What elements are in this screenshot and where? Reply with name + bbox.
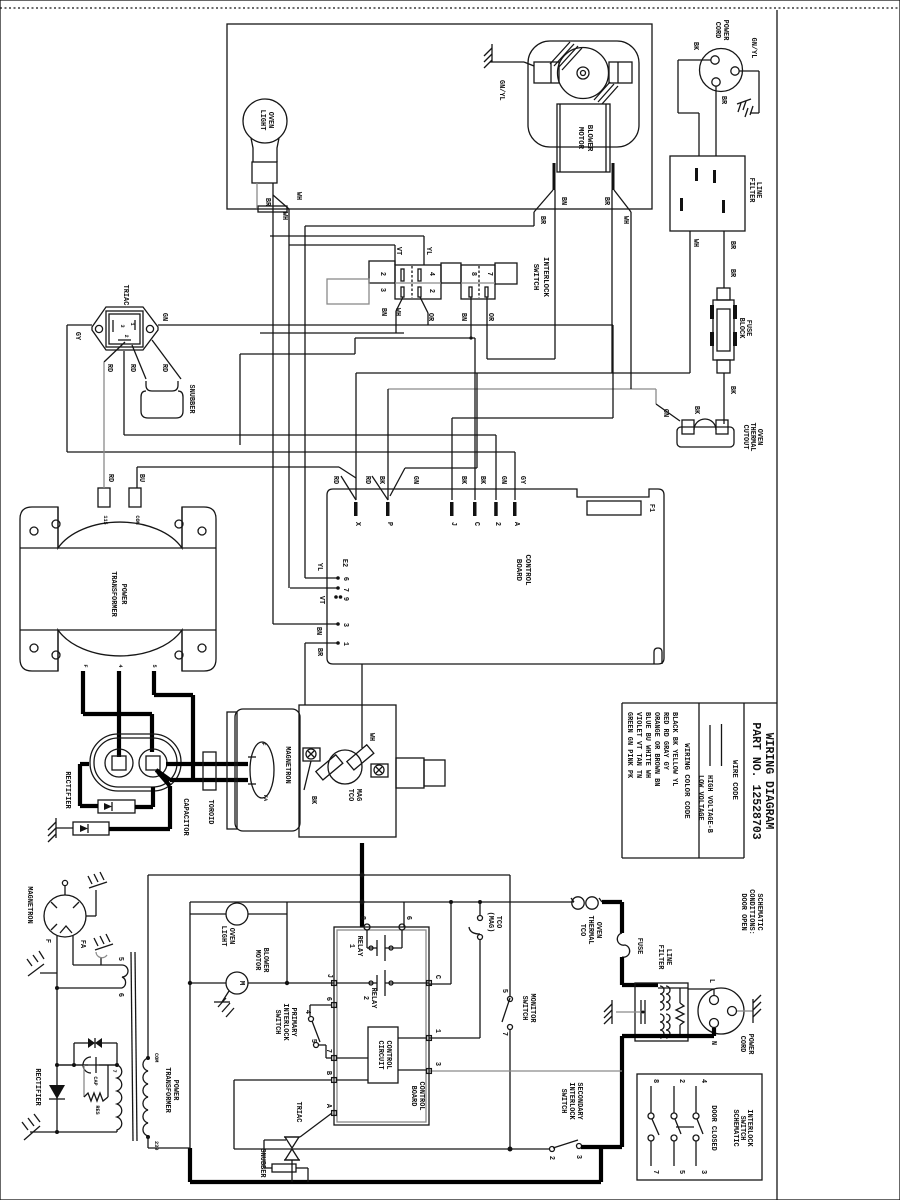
svg-text:GN/YL: GN/YL: [497, 80, 505, 101]
svg-text:RD: RD: [128, 364, 136, 372]
svg-text:RD: RD: [106, 474, 114, 482]
svg-text:5: 5: [116, 957, 124, 961]
svg-text:SNUBBER: SNUBBER: [187, 385, 195, 415]
svg-text:2: 2: [547, 1156, 555, 1160]
svg-text:CONDITIONS:: CONDITIONS:: [747, 889, 755, 935]
svg-text:BLUE BU WHITE WH: BLUE BU WHITE WH: [643, 712, 651, 778]
svg-text:3: 3: [378, 288, 386, 292]
svg-text:RED RD GRAY GY: RED RD GRAY GY: [661, 712, 669, 771]
svg-text:GN: GN: [160, 313, 168, 321]
svg-text:RELAY: RELAY: [355, 936, 363, 958]
svg-text:VT: VT: [317, 596, 325, 604]
svg-text:RES: RES: [94, 1105, 100, 1114]
svg-text:BN: BN: [379, 308, 387, 316]
svg-text:7: 7: [500, 1032, 508, 1036]
svg-text:7: 7: [111, 1069, 117, 1072]
svg-text:MOTOR: MOTOR: [253, 950, 261, 972]
svg-text:CONTROL: CONTROL: [417, 1082, 425, 1111]
svg-text:L: L: [707, 979, 715, 983]
svg-text:BK: BK: [478, 476, 486, 485]
svg-text:CAP: CAP: [92, 1076, 98, 1085]
svg-text:INTERLOCK: INTERLOCK: [281, 1003, 289, 1041]
svg-text:VIOLET VT TAN TN: VIOLET VT TAN TN: [634, 712, 642, 778]
svg-text:MAGNETRON: MAGNETRON: [283, 746, 291, 783]
svg-text:ORANGE OR BROWN BN: ORANGE OR BROWN BN: [652, 712, 660, 786]
svg-text:5: 5: [309, 1039, 317, 1043]
svg-text:POWER: POWER: [721, 20, 729, 42]
svg-text:LINE: LINE: [664, 949, 672, 966]
svg-text:SCHEMATIC: SCHEMATIC: [731, 1109, 739, 1146]
svg-text:POWER: POWER: [119, 584, 127, 606]
svg-text:F1: F1: [647, 504, 655, 512]
svg-text:TRANSFORMER: TRANSFORMER: [163, 1067, 171, 1113]
svg-text:RECTIFIER: RECTIFIER: [33, 1068, 41, 1106]
svg-text:4: 4: [427, 272, 435, 276]
svg-text:BN: BN: [459, 313, 467, 321]
svg-text:4: 4: [303, 1010, 311, 1014]
svg-text:WH: WH: [367, 733, 375, 741]
svg-text:CIRCUIT: CIRCUIT: [376, 1041, 384, 1070]
svg-text:1: 1: [433, 1029, 441, 1033]
svg-text:6: 6: [116, 993, 124, 997]
svg-text:OVEN: OVEN: [594, 922, 602, 939]
svg-text:OR: OR: [426, 313, 434, 322]
svg-text:BR: BR: [728, 241, 736, 250]
svg-text:SWITCH: SWITCH: [520, 996, 528, 1021]
svg-text:COM: COM: [134, 515, 140, 524]
svg-text:M: M: [237, 981, 245, 986]
svg-text:1: 1: [341, 642, 349, 646]
svg-text:BR: BR: [728, 269, 736, 278]
svg-text:RD: RD: [105, 364, 113, 372]
svg-text:OVEN: OVEN: [227, 928, 235, 945]
svg-text:MAGNETRON: MAGNETRON: [25, 886, 33, 923]
svg-text:POWER: POWER: [746, 1034, 754, 1056]
svg-text:BK: BK: [691, 42, 699, 51]
svg-text:MOTOR: MOTOR: [576, 127, 584, 150]
svg-text:3: 3: [341, 623, 349, 627]
svg-text:FILTER: FILTER: [656, 945, 664, 971]
svg-text:A: A: [324, 1104, 332, 1109]
svg-text:BOARD: BOARD: [409, 1086, 417, 1107]
svg-text:SWITCH: SWITCH: [531, 264, 539, 291]
svg-text:BN: BN: [559, 197, 567, 205]
svg-text:FA: FA: [262, 795, 268, 802]
svg-text:SNUBBER: SNUBBER: [258, 1149, 266, 1179]
svg-text:230: 230: [153, 1141, 159, 1150]
svg-text:RELAY: RELAY: [369, 988, 377, 1010]
svg-text:BK: BK: [728, 386, 736, 395]
svg-text:TRIAC: TRIAC: [294, 1102, 302, 1123]
svg-text:1: 1: [129, 322, 135, 325]
svg-text:C: C: [433, 975, 441, 979]
svg-text:COM: COM: [153, 1053, 159, 1062]
svg-text:PRIMARY: PRIMARY: [289, 1008, 297, 1038]
svg-text:BK: BK: [692, 406, 700, 415]
svg-text:6: 6: [341, 577, 349, 581]
svg-text:HIGH VOLTAGE-B: HIGH VOLTAGE-B: [705, 775, 713, 833]
svg-text:BK: BK: [459, 476, 467, 485]
svg-text:GN: GN: [499, 476, 507, 484]
svg-text:MAG: MAG: [354, 789, 362, 801]
svg-text:P: P: [385, 522, 393, 526]
svg-text:CAPACITOR: CAPACITOR: [181, 798, 189, 836]
svg-text:BR: BR: [538, 216, 546, 225]
svg-text:J: J: [325, 974, 333, 978]
svg-text:WH: WH: [621, 216, 629, 224]
svg-text:GY: GY: [518, 476, 526, 485]
svg-text:RD: RD: [363, 476, 371, 484]
svg-text:DOOR OPEN: DOOR OPEN: [739, 893, 747, 930]
svg-text:7: 7: [341, 588, 349, 592]
svg-text:BR: BR: [719, 96, 727, 105]
svg-text:3: 3: [433, 1062, 441, 1066]
svg-text:FILTER: FILTER: [747, 178, 755, 204]
svg-text:8: 8: [469, 272, 477, 276]
svg-text:INTERLOCK: INTERLOCK: [541, 257, 549, 297]
svg-text:J: J: [449, 522, 457, 526]
svg-text:F: F: [82, 664, 88, 667]
svg-text:PART NO. 12528703: PART NO. 12528703: [749, 722, 762, 839]
svg-text:3: 3: [119, 324, 125, 327]
svg-text:BR: BR: [602, 197, 610, 206]
svg-text:RECTIFIER: RECTIFIER: [63, 771, 71, 809]
svg-text:BR: BR: [315, 648, 323, 657]
svg-text:TRIAC: TRIAC: [121, 285, 129, 306]
svg-text:F: F: [260, 742, 266, 745]
svg-text:B: B: [324, 1071, 332, 1075]
svg-text:BU: BU: [137, 474, 145, 482]
svg-text:WH: WH: [294, 192, 302, 200]
svg-text:WIRE CODE: WIRE CODE: [730, 760, 738, 800]
svg-text:BLOWER: BLOWER: [261, 948, 269, 974]
svg-text:RD: RD: [160, 364, 168, 372]
svg-text:LIGHT: LIGHT: [219, 926, 227, 947]
svg-text:WIRING DIAGRAM: WIRING DIAGRAM: [762, 733, 775, 830]
svg-text:X: X: [353, 522, 361, 527]
svg-text:LOW VOLTAGE: LOW VOLTAGE: [696, 775, 704, 821]
svg-text:THERMAL: THERMAL: [586, 916, 594, 945]
svg-text:4: 4: [117, 664, 123, 667]
svg-text:GY: GY: [73, 332, 81, 341]
svg-text:TOROID: TOROID: [206, 800, 214, 825]
svg-text:BN: BN: [314, 627, 322, 635]
svg-text:115: 115: [102, 515, 108, 524]
svg-text:CORD: CORD: [738, 1036, 746, 1053]
svg-text:3: 3: [699, 1170, 707, 1174]
svg-text:2: 2: [677, 1079, 685, 1083]
svg-text:GN/YL: GN/YL: [749, 38, 757, 59]
svg-text:WH: WH: [280, 212, 288, 220]
svg-text:6: 6: [324, 997, 332, 1001]
svg-text:BLACK BK YELLOW YL: BLACK BK YELLOW YL: [670, 712, 678, 786]
svg-text:1: 1: [347, 944, 355, 948]
svg-text:BR: BR: [263, 198, 271, 207]
svg-text:2: 2: [427, 289, 435, 293]
svg-text:6: 6: [404, 916, 412, 920]
svg-text:2: 2: [493, 522, 501, 526]
svg-text:YL: YL: [315, 563, 323, 571]
svg-text:2: 2: [378, 272, 386, 276]
svg-text:2: 2: [123, 334, 129, 337]
svg-text:FA: FA: [78, 940, 86, 949]
svg-text:INTERLOCK: INTERLOCK: [567, 1082, 575, 1120]
svg-text:8: 8: [358, 916, 366, 920]
svg-text:8: 8: [651, 1079, 659, 1083]
svg-text:CONTROL: CONTROL: [384, 1041, 392, 1070]
svg-text:WIRING COLOR CODE: WIRING COLOR CODE: [682, 743, 690, 819]
svg-text:7: 7: [485, 272, 493, 276]
svg-text:4: 4: [699, 1079, 707, 1083]
svg-text:TRANSFORMER: TRANSFORMER: [109, 571, 117, 617]
svg-text:E2: E2: [340, 559, 348, 567]
svg-text:GN: GN: [661, 409, 669, 417]
svg-text:TCO: TCO: [494, 916, 502, 928]
svg-text:BK: BK: [309, 796, 317, 805]
svg-text:5: 5: [151, 664, 157, 667]
svg-text:BOARD: BOARD: [514, 559, 522, 582]
svg-text:A: A: [512, 522, 520, 527]
svg-text:LIGHT: LIGHT: [258, 110, 266, 131]
svg-text:C: C: [472, 522, 480, 526]
svg-text:(MAG): (MAG): [486, 912, 494, 933]
svg-text:GREEN GN PINK PK: GREEN GN PINK PK: [625, 712, 633, 779]
svg-text:BK: BK: [377, 476, 385, 485]
svg-text:SECONDARY: SECONDARY: [575, 1082, 583, 1120]
svg-text:3: 3: [574, 1155, 582, 1159]
svg-text:YL: YL: [424, 247, 432, 255]
svg-text:7: 7: [324, 1049, 332, 1053]
svg-text:BLOWER: BLOWER: [585, 125, 593, 152]
svg-text:5: 5: [500, 989, 508, 993]
svg-text:FUSE: FUSE: [635, 938, 643, 955]
svg-text:F: F: [43, 939, 51, 943]
svg-text:OVEN: OVEN: [266, 112, 274, 129]
svg-text:7: 7: [651, 1170, 659, 1174]
svg-text:WH: WH: [691, 239, 699, 247]
svg-text:TCO: TCO: [578, 924, 586, 936]
svg-text:SWITCH: SWITCH: [273, 1010, 281, 1035]
svg-text:N: N: [709, 1041, 717, 1045]
svg-text:SWITCH: SWITCH: [559, 1089, 567, 1114]
svg-text:5: 5: [677, 1170, 685, 1174]
svg-text:BLOCK: BLOCK: [737, 318, 745, 340]
svg-text:CUTOUT: CUTOUT: [741, 425, 749, 450]
svg-text:MONITOR: MONITOR: [528, 994, 536, 1024]
svg-text:CONTROL: CONTROL: [523, 554, 531, 586]
svg-text:SCHEMATIC: SCHEMATIC: [755, 893, 763, 930]
svg-text:CORD: CORD: [713, 22, 721, 39]
svg-text:RD: RD: [331, 476, 339, 484]
svg-text:DOOR CLOSED: DOOR CLOSED: [709, 1105, 717, 1151]
svg-text:GN: GN: [411, 476, 419, 484]
svg-text:POWER: POWER: [171, 1080, 179, 1102]
svg-text:2: 2: [361, 996, 369, 1000]
svg-text:TCO: TCO: [346, 789, 354, 801]
